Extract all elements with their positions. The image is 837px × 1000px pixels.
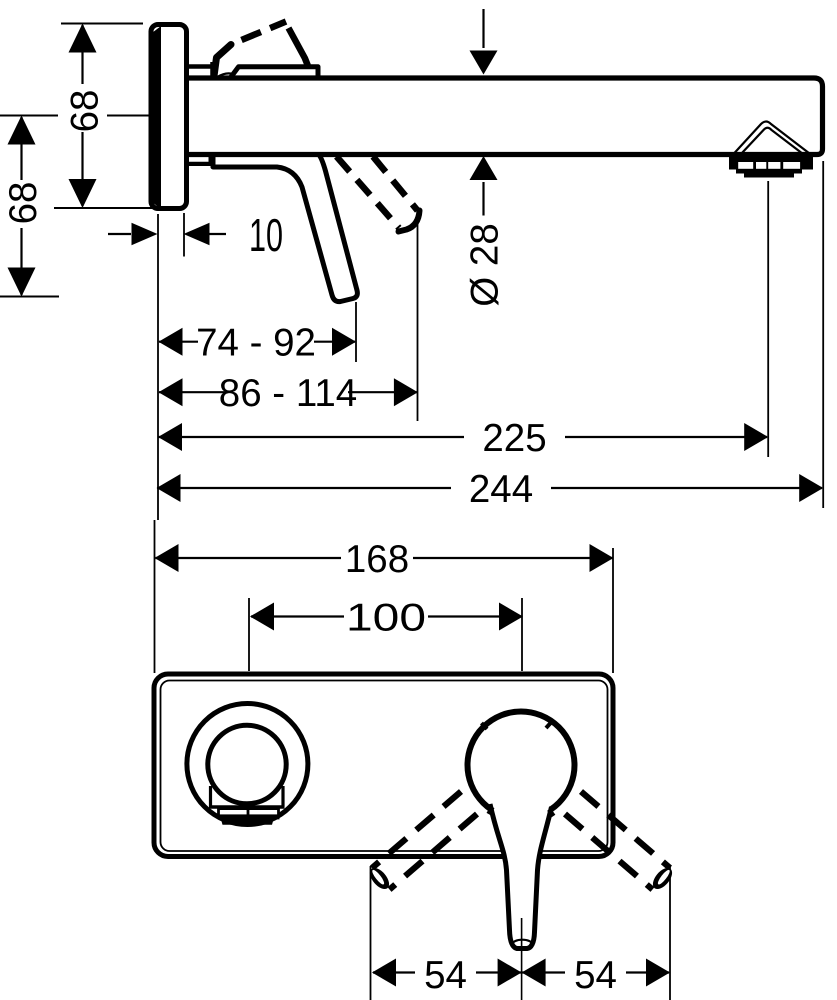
aerator body <box>729 157 813 178</box>
extension line: plate left edge (bottom view, x=154.5) <box>154 520 156 673</box>
extension line: spout outlet centre (bottom view, x=249) <box>248 598 250 671</box>
extension line: spout end (x=823) <box>822 161 824 508</box>
svg-text:68: 68 <box>2 182 45 225</box>
handle stem open end <box>513 940 533 949</box>
mounting stub upper <box>186 64 212 69</box>
dimension D28 (spout diameter) <box>464 9 507 307</box>
svg-text:100: 100 <box>346 597 426 640</box>
svg-text:10: 10 <box>249 209 283 261</box>
handle ball (front view) <box>468 712 575 819</box>
svg-text:54: 54 <box>424 954 467 997</box>
dimension 86-114 (wall to dashed lever) <box>159 372 418 415</box>
outlet bracket right <box>281 786 284 807</box>
dimension 54 right (handle swing) <box>522 954 670 997</box>
extension line: lever tip (x=356) <box>355 302 357 362</box>
dimension 68 (plate height, right) <box>54 24 157 209</box>
dimension 68 (spout centre to lever tip, left) <box>0 116 152 297</box>
dimension 168 (plate width) <box>155 538 614 581</box>
handle pivot (solid, above spout) <box>214 45 231 77</box>
svg-text:225: 225 <box>482 417 546 460</box>
handle pivot ball arc <box>218 73 241 77</box>
aerator dome outer line <box>734 122 810 155</box>
dashed handle left, upper edge <box>372 792 461 869</box>
wall plate fixing nub upper <box>149 42 152 51</box>
extension line: wall plate back face (top view, x=158) <box>157 214 159 520</box>
extension line: left dashed handle cap (x=371) <box>370 866 372 1000</box>
handle base on spout <box>230 67 319 79</box>
outlet aerator band <box>219 809 279 816</box>
extension line: handle stem centre (x=521.6) <box>521 918 523 1000</box>
outlet bracket bottom <box>209 805 285 808</box>
svg-text:74 - 92: 74 - 92 <box>196 322 316 365</box>
svg-text:86 - 114: 86 - 114 <box>219 372 357 415</box>
handle stem fillet tick left <box>489 807 493 814</box>
spout outlet inner circle <box>208 725 286 803</box>
dimension 54 left (handle swing) <box>372 954 669 997</box>
extension line: plate front face (x=184) <box>183 213 185 257</box>
svg-text:54: 54 <box>574 954 617 997</box>
escutcheon plate outer <box>154 674 613 857</box>
handle stem fillet tick right <box>549 810 554 817</box>
svg-text:68: 68 <box>64 90 107 133</box>
wall plate fixing nub lower <box>149 182 152 191</box>
outlet aerator bar <box>218 816 280 825</box>
aerator dome inner line <box>741 128 803 154</box>
dashed handle left, lower edge <box>390 814 478 890</box>
spout body <box>186 78 823 155</box>
extension line: handle centre (bottom view, x=522) <box>521 598 523 671</box>
mounting stub lower <box>186 162 211 166</box>
dimension 225 (wall to aerator centre) <box>158 417 768 460</box>
spout outlet outer circle <box>187 704 308 825</box>
dashed rotated lever (down-right), lower edge <box>337 157 400 229</box>
dashed rotated lever end cap <box>399 211 420 232</box>
extension line: dashed lever cap (x=417.5) <box>417 223 419 421</box>
handle ball junction tick upper-right <box>546 722 552 728</box>
dashed handle right, lower edge <box>565 814 653 890</box>
dashed raised lever, right edge <box>289 28 308 66</box>
outlet bracket left <box>209 786 212 807</box>
wall plate (side view) <box>151 25 187 209</box>
extension line: right dashed handle cap (x=669.5) <box>669 866 671 1000</box>
aerator slots <box>738 162 753 169</box>
dashed handle right, upper edge <box>581 792 670 869</box>
dimension 10 (plate thickness) <box>108 209 283 261</box>
handle stem <box>490 804 552 949</box>
dimension 100 (hole spacing) <box>250 597 523 640</box>
wall plate front facet <box>153 26 162 209</box>
dashed handle left end cap <box>366 865 392 893</box>
dashed handle right end cap <box>649 865 675 893</box>
dimension 74-92 (wall to lever tip) <box>159 322 357 365</box>
dashed raised lever, lower edge <box>242 22 287 41</box>
extension line: aerator centre (x=768) <box>767 181 769 457</box>
escutcheon plate inner line <box>161 681 608 852</box>
handle ball junction tick upper-left <box>482 723 488 729</box>
extension line: plate right edge (bottom view, x=613) <box>612 548 614 673</box>
svg-text:Ø 28: Ø 28 <box>464 223 507 306</box>
lever handle (solid, down position) <box>213 155 357 302</box>
svg-text:168: 168 <box>345 538 409 581</box>
dashed rotated lever (down-right), upper edge <box>373 157 418 211</box>
dimension 244 (wall to spout end) <box>157 468 824 511</box>
svg-text:244: 244 <box>469 468 533 511</box>
